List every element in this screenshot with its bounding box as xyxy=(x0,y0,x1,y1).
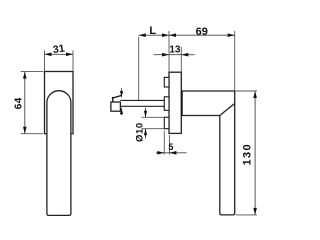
dimension 64: extension line bottom xyxy=(21,133,44,135)
dimension 64: bottom arrowhead xyxy=(23,127,27,134)
bend edge diagonal xyxy=(220,104,234,116)
label 7 glyph above cap xyxy=(112,96,121,103)
dimension 130: dimension line xyxy=(254,91,256,215)
5 right arrowhead (outside pointing left) xyxy=(169,151,176,155)
dimension O10: extension line top xyxy=(142,116,165,118)
dimension 5: extension line left (tab face) xyxy=(163,131,165,155)
screw boss tab top xyxy=(164,77,169,87)
dimension 130: extension line bottom xyxy=(236,214,257,216)
hub tab middle xyxy=(164,97,169,111)
svg-text:130: 130 xyxy=(241,143,253,166)
L right arrowhead xyxy=(162,33,169,37)
top dimension L and 69: extension line far left xyxy=(138,37,140,100)
13 left arrowhead (outside) xyxy=(162,53,169,57)
svg-text:64: 64 xyxy=(14,97,25,109)
dimension O10: upper dim line with down arrow xyxy=(145,108,147,118)
dimension 5: extension line right (plate face) xyxy=(168,135,170,155)
dimension O10: extension line bottom xyxy=(142,128,165,130)
dimension 31: right arrowhead xyxy=(66,53,73,57)
handle lever side profile (arch + shaft) xyxy=(47,91,71,216)
svg-text:L: L xyxy=(149,25,156,37)
rosette plate (front/side) xyxy=(169,72,181,133)
screw boss tab bottom xyxy=(164,117,169,128)
130 top arrowhead xyxy=(253,91,257,98)
bold neck segment at plate xyxy=(181,91,183,116)
svg-text:69: 69 xyxy=(196,26,208,38)
dimension 64: dimension line xyxy=(24,72,26,134)
13 right arrowhead (outside) xyxy=(181,53,188,57)
dimension 31: extension line left xyxy=(44,50,46,71)
svg-text:13: 13 xyxy=(169,44,181,55)
dimension 64: extension line top xyxy=(21,71,44,73)
cap dimension line lower (up arrow) xyxy=(121,108,123,115)
svg-text:Ø10: Ø10 xyxy=(134,122,145,142)
dimension 64: top arrowhead xyxy=(23,72,27,79)
handle outline (front view) xyxy=(181,91,234,215)
69 left arrowhead xyxy=(169,33,176,37)
cap dimension line upper (down arrow) xyxy=(121,88,123,97)
spindle square end cap xyxy=(111,102,121,111)
extension line handle right xyxy=(234,31,236,91)
svg-text:31: 31 xyxy=(52,43,65,57)
spindle bar bottom edge xyxy=(120,105,164,107)
dimension O10: lower dim line with up arrow xyxy=(145,129,147,139)
svg-text:5: 5 xyxy=(168,142,173,152)
dimension 31: extension line right xyxy=(72,50,74,71)
extension line plate left xyxy=(168,31,170,72)
dimension 5: dimension line xyxy=(156,152,187,154)
extension line plate right xyxy=(180,47,182,72)
69 right arrowhead xyxy=(228,33,235,37)
L left arrowhead xyxy=(139,33,146,37)
dimension line L + 69 xyxy=(139,34,235,36)
dimension 31: dimension line xyxy=(45,53,74,55)
rosette plate (side view rectangle) xyxy=(45,72,74,134)
dimension 31: left arrowhead xyxy=(45,53,52,57)
dimension 13: dimension line xyxy=(154,54,195,56)
dimension 130: extension line top xyxy=(236,90,257,92)
5 left arrowhead (outside pointing right) xyxy=(157,151,164,155)
spindle bar top edge xyxy=(120,99,164,101)
130 bottom arrowhead xyxy=(253,208,257,215)
